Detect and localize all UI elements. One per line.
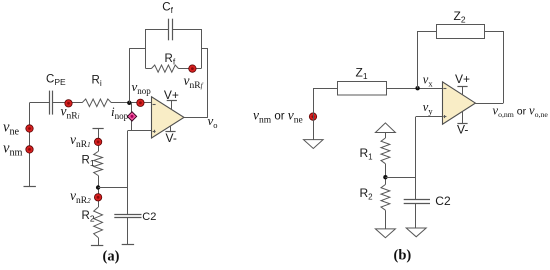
wire — [475, 103, 503, 105]
wire — [173, 29, 201, 31]
ground — [122, 244, 134, 246]
wire — [128, 131, 152, 215]
wire — [485, 31, 504, 103]
wire — [385, 177, 416, 179]
node v_y — [423, 100, 434, 116]
terminal — [93, 129, 104, 152]
wire — [131, 103, 133, 131]
svg-text:V-: V- — [166, 131, 177, 145]
ground — [24, 186, 36, 188]
svg-text:V+: V+ — [455, 72, 470, 86]
node v_ne — [3, 120, 33, 138]
node v_nm — [3, 141, 33, 159]
node v_nRi — [61, 100, 80, 122]
junction — [383, 175, 387, 179]
node input — [253, 108, 317, 126]
resistor R2 — [82, 207, 103, 237]
op-amp U1 — [152, 97, 185, 138]
wire — [385, 164, 387, 185]
wire — [201, 48, 208, 117]
ground — [375, 229, 395, 238]
svg-text:V-: V- — [457, 123, 468, 137]
node v_nRf — [184, 65, 204, 91]
node v_x junction — [415, 86, 419, 90]
svg-text:V+: V+ — [164, 88, 179, 102]
node v_nop junction — [127, 101, 131, 105]
wire — [112, 102, 152, 104]
wire — [53, 102, 82, 104]
caption (a) — [103, 249, 120, 265]
wire — [98, 238, 100, 246]
wire — [201, 29, 203, 69]
capacitor Cf — [162, 2, 173, 41]
caption (b) — [394, 248, 412, 264]
wire — [184, 117, 208, 119]
wire — [386, 88, 442, 90]
resistor Ri — [82, 75, 112, 107]
wire — [416, 117, 443, 200]
resistor R2 — [360, 185, 390, 211]
V- supply pin — [457, 111, 468, 136]
wire — [98, 176, 100, 208]
impedance Z2 — [437, 9, 485, 39]
wire — [385, 133, 387, 139]
V+ supply pin — [164, 88, 179, 110]
op-amp U2 — [443, 82, 476, 124]
resistor R1 — [82, 152, 103, 176]
node v_o — [208, 113, 218, 130]
wire — [129, 48, 146, 103]
resistor R1 — [360, 138, 390, 164]
V+ supply pin — [455, 72, 470, 95]
capacitor C2 — [114, 211, 156, 223]
ground — [375, 123, 395, 133]
svg-text:C2: C2 — [142, 211, 156, 223]
node v_o,nm — [493, 104, 549, 120]
impedance Z1 — [338, 66, 387, 96]
wire — [145, 29, 147, 69]
svg-text:(a): (a) — [103, 249, 120, 265]
junction — [96, 185, 100, 189]
wire — [313, 88, 338, 139]
capacitor C2 — [404, 194, 451, 208]
wire — [98, 187, 128, 189]
svg-text:C2: C2 — [435, 194, 451, 208]
wire — [179, 68, 201, 70]
node v_nR1 — [70, 132, 102, 150]
wire — [30, 103, 50, 187]
wire — [418, 31, 437, 88]
V- supply pin — [165, 126, 176, 146]
ground — [91, 245, 103, 247]
node v_nR2 — [70, 188, 102, 206]
ground — [406, 228, 426, 237]
node v_nop — [132, 79, 152, 107]
wire — [127, 218, 129, 245]
node v_x — [423, 73, 434, 89]
svg-text:(b): (b) — [394, 248, 412, 264]
capacitor CPE — [46, 74, 66, 115]
wire — [385, 210, 387, 229]
ground — [304, 140, 324, 149]
wire — [146, 29, 169, 31]
current source i_nop — [111, 104, 137, 121]
wire — [415, 203, 417, 228]
resistor Rf — [151, 53, 178, 72]
wire — [146, 68, 152, 70]
